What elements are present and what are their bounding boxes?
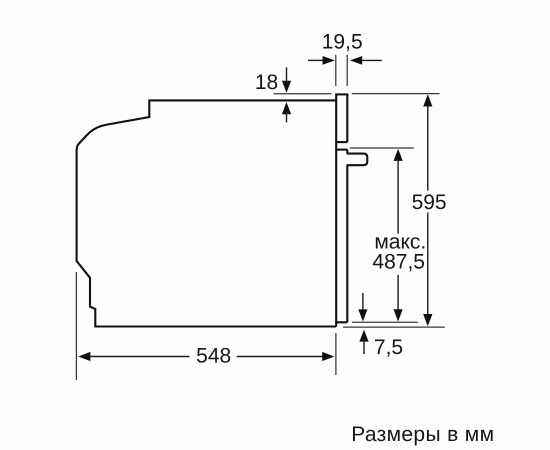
dimension 18 down arrow (286, 67, 288, 82)
door lower section top edge (335, 149, 347, 151)
dimension 18 up arrow (282, 102, 291, 114)
svg-text:19,5: 19,5 (322, 30, 363, 53)
extension line: 19,5 right vertical (346, 55, 348, 86)
svg-text:Размеры в мм: Размеры в мм (351, 423, 494, 446)
door handle (347, 154, 368, 166)
oven door top edge (335, 93, 348, 95)
extension line: handle top (487,5) (350, 147, 414, 149)
oven door front edge mid (346, 150, 348, 154)
dimension 19,5 right arrow (361, 59, 382, 61)
extension line: 548 right vertical (335, 333, 337, 375)
extension line: 548 left vertical (75, 272, 77, 380)
oven door bottom edge (335, 321, 347, 323)
dimension 7,5 down arrow (362, 293, 364, 311)
dimension 548 right arrowhead (322, 352, 334, 361)
extension line: 19,5 left vertical (335, 55, 337, 86)
dimension 487,5 line lower (397, 275, 399, 311)
dimension 7,5 up arrow (359, 330, 368, 342)
dimension 548 left arrowhead (78, 352, 90, 361)
oven door back edge (335, 94, 337, 326)
extension line: door bottom (487,5 / 7,5) (352, 321, 418, 323)
svg-text:487,5: 487,5 (372, 251, 425, 274)
svg-text:18: 18 (255, 71, 278, 94)
dimension 595 line upper (427, 104, 429, 191)
svg-text:595: 595 (412, 191, 447, 214)
dimension 487,5 line upper (397, 159, 399, 234)
oven door front edge lower (346, 165, 348, 322)
dimension 19,5 left arrow (308, 59, 324, 61)
control panel bottom edge (335, 141, 347, 143)
svg-text:7,5: 7,5 (374, 336, 403, 359)
dimension 487,5 up arrowhead (394, 149, 403, 161)
svg-text:548: 548 (196, 345, 231, 368)
extension line: door top left (18) (274, 93, 332, 95)
dimension 548 line right (237, 356, 324, 358)
dimension 487,5 down arrowhead (394, 309, 403, 321)
dimension 595 up arrowhead (423, 94, 432, 106)
dimension 595 down arrowhead (423, 314, 432, 326)
oven body outline (77, 100, 337, 326)
extension line: door top right (595) (352, 93, 440, 95)
extension line: body bottom (595 / 7,5) (343, 326, 445, 328)
oven door front edge upper (346, 94, 348, 142)
dimension 548 line left (89, 356, 190, 358)
dimension 595 line lower (427, 213, 429, 317)
